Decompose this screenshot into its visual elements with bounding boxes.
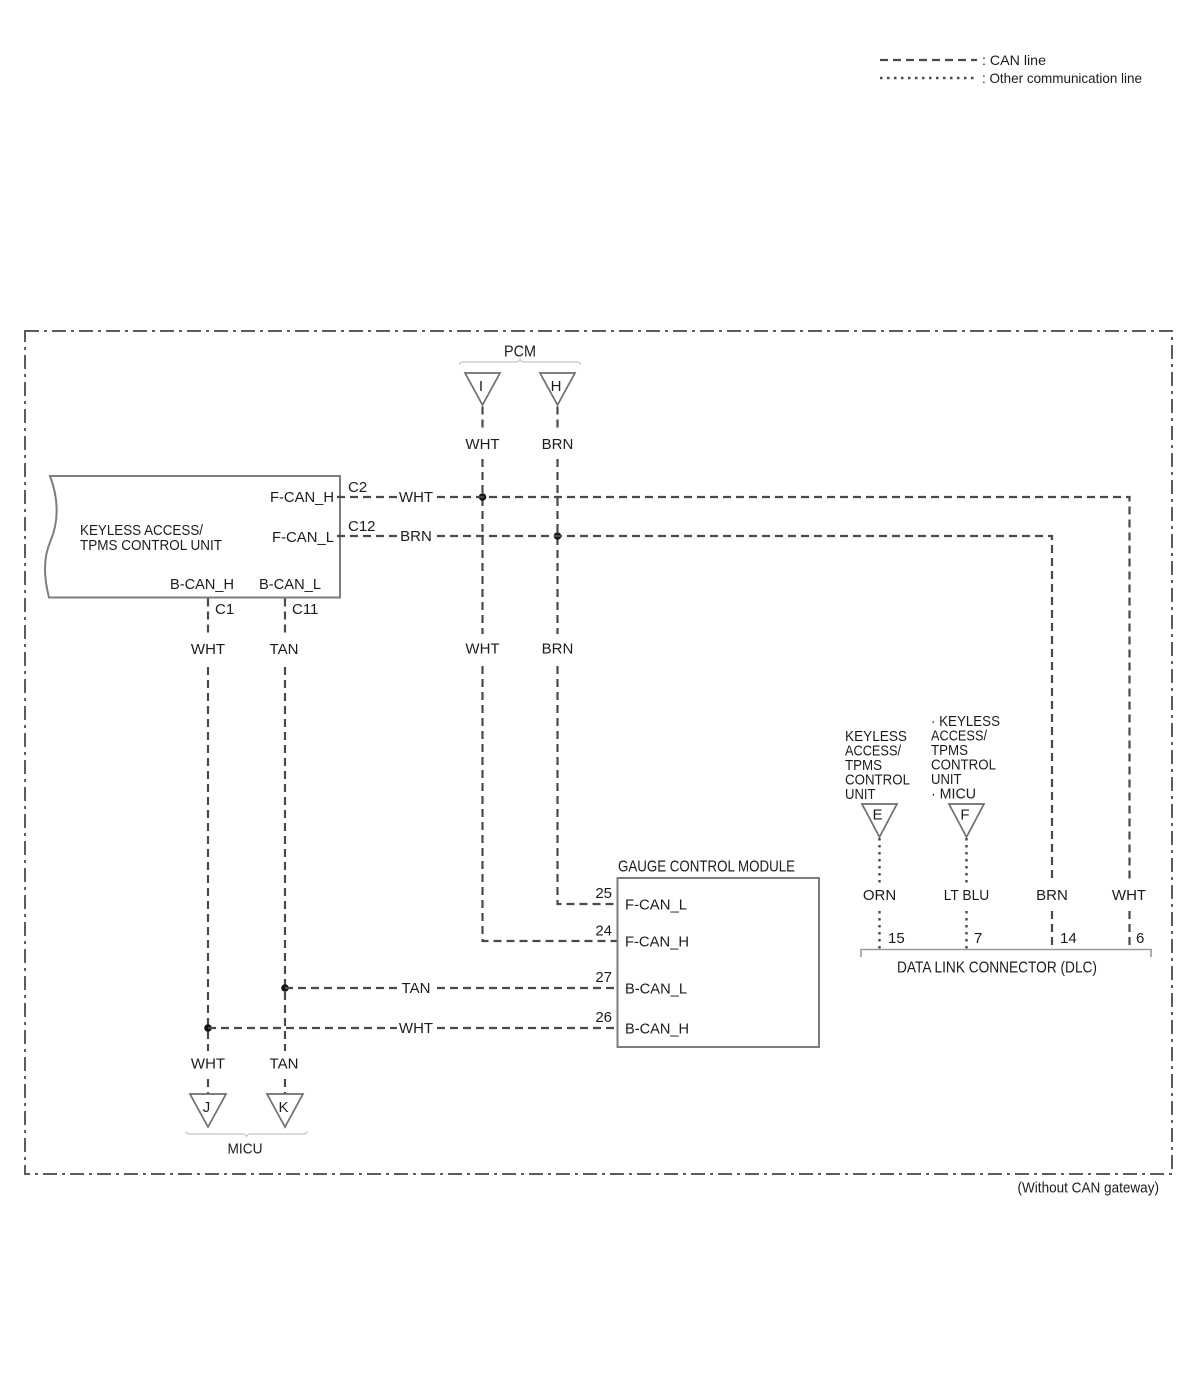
label: keyless access/TPMS control unit (E block): [845, 728, 910, 803]
svg-text:C12: C12: [348, 518, 376, 535]
svg-text:WHT: WHT: [465, 436, 499, 453]
wire: F-CAN_H WHT bus from C2: [337, 496, 397, 498]
svg-text:F-CAN_L: F-CAN_L: [272, 529, 334, 546]
svg-text:BRN: BRN: [542, 641, 574, 658]
wire: F-CAN_H vertical I segment: [481, 459, 483, 634]
wire: F-CAN_H from connector I down: [481, 407, 483, 432]
legend: other communication line sample: [880, 70, 1142, 86]
svg-text:· MICU: · MICU: [931, 786, 976, 803]
wire: F-CAN_H to gauge control module pin 24: [483, 666, 618, 941]
svg-text:26: 26: [595, 1009, 612, 1026]
svg-text:BRN: BRN: [400, 528, 432, 545]
wire: B-CAN_L from C11 down: [284, 599, 286, 638]
svg-text:UNIT: UNIT: [845, 786, 876, 803]
svg-text:DATA LINK CONNECTOR (DLC): DATA LINK CONNECTOR (DLC): [897, 960, 1097, 977]
svg-text:15: 15: [888, 930, 905, 947]
svg-text:K: K: [278, 1099, 288, 1116]
junction: H wire with F-CAN_L bus: [554, 532, 562, 540]
wire: K-line from connector E: [878, 838, 880, 884]
svg-text:C1: C1: [215, 601, 234, 618]
svg-text:BRN: BRN: [1036, 887, 1068, 904]
connector I (PCM): [465, 373, 500, 405]
wire: B-CAN_L stub into connector K: [284, 1079, 286, 1094]
junction: I wire with F-CAN_H bus: [479, 493, 487, 501]
svg-text:I: I: [479, 378, 483, 395]
svg-text:J: J: [203, 1099, 211, 1116]
connector J (MICU): [190, 1094, 226, 1127]
svg-text:14: 14: [1060, 930, 1077, 947]
svg-text:TAN: TAN: [270, 641, 299, 658]
legend: CAN line sample: [880, 52, 1046, 68]
label: keyless access/TPMS control unit - MICU (F block): [931, 713, 1000, 803]
svg-text:ORN: ORN: [863, 887, 896, 904]
wire: F-CAN_L to gauge control module pin 25: [558, 666, 618, 904]
svg-text:BRN: BRN: [542, 436, 574, 453]
wire: BRN drop to DLC pin 14: [1051, 911, 1053, 949]
junction: B-CAN_L tap to gauge control module: [281, 984, 289, 992]
wire: F-CAN_L BRN bus from C12: [337, 535, 399, 537]
gauge control module box: [618, 859, 820, 1048]
svg-text:E: E: [872, 807, 882, 824]
wire: B-CAN_H stub into connector J: [207, 1079, 209, 1094]
svg-text:24: 24: [595, 923, 612, 940]
connector H (PCM): [540, 373, 575, 405]
svg-text:WHT: WHT: [1112, 887, 1146, 904]
svg-text:TPMS CONTROL UNIT: TPMS CONTROL UNIT: [80, 537, 222, 554]
connector F: [949, 804, 984, 837]
wire: F-CAN_H WHT bus to DLC pin 6: [437, 497, 1130, 883]
svg-text:B-CAN_H: B-CAN_H: [625, 1021, 689, 1038]
svg-text:F-CAN_L: F-CAN_L: [625, 897, 687, 914]
svg-text:27: 27: [595, 969, 612, 986]
data link connector (DLC) bracket: [861, 950, 1151, 977]
keyless access / TPMS control unit box: [45, 476, 340, 598]
wire: B-CAN_H vertical to MICU J: [207, 667, 209, 1051]
wire: LT BLU drop to DLC pin 7: [965, 911, 967, 949]
svg-text:GAUGE CONTROL MODULE: GAUGE CONTROL MODULE: [618, 859, 795, 876]
junction: B-CAN_H tap to gauge control module: [204, 1024, 212, 1032]
svg-text:TAN: TAN: [402, 980, 431, 997]
svg-text:WHT: WHT: [191, 641, 225, 658]
svg-text:: CAN line: : CAN line: [982, 52, 1046, 68]
wire: F-CAN_L BRN bus to DLC pin 14: [437, 536, 1052, 883]
svg-text:LT BLU: LT BLU: [944, 887, 990, 904]
wire: B-CAN_H to gauge control module pin 26: [208, 1027, 397, 1029]
svg-text:C2: C2: [348, 479, 367, 496]
svg-text:WHT: WHT: [399, 489, 433, 506]
wire: F-CAN_L from connector H down: [556, 407, 558, 432]
wire: B-CAN_L to gauge control module pin 27: [285, 987, 397, 989]
svg-text:B-CAN_H: B-CAN_H: [170, 576, 234, 593]
svg-text:WHT: WHT: [191, 1056, 225, 1073]
svg-text:TAN: TAN: [270, 1056, 299, 1073]
wire: F-CAN_L vertical H segment: [556, 459, 558, 634]
svg-text:B-CAN_L: B-CAN_L: [259, 576, 321, 593]
svg-text:C11: C11: [292, 601, 318, 618]
svg-text:F: F: [960, 807, 969, 824]
svg-text:6: 6: [1136, 930, 1144, 947]
wire: B-CAN_L vertical to MICU K: [284, 667, 286, 1051]
MICU label with brace: [186, 1132, 307, 1158]
svg-text:7: 7: [974, 930, 982, 947]
PCM label with brace: [460, 344, 581, 365]
wire: B-CAN_H from C1 down: [207, 599, 209, 638]
svg-text:: Other communication line: : Other communication line: [982, 70, 1142, 86]
wire: B-CAN_L pin 27 segment: [437, 987, 617, 989]
svg-text:H: H: [551, 378, 562, 395]
wire: communication line from connector F: [965, 838, 967, 884]
svg-text:F-CAN_H: F-CAN_H: [625, 934, 689, 951]
svg-text:WHT: WHT: [399, 1020, 433, 1037]
wire: ORN drop to DLC pin 15: [878, 911, 880, 949]
svg-text:B-CAN_L: B-CAN_L: [625, 981, 687, 998]
svg-text:25: 25: [595, 885, 612, 902]
svg-text:F-CAN_H: F-CAN_H: [270, 489, 334, 506]
svg-text:MICU: MICU: [228, 1141, 263, 1158]
connector K (MICU): [267, 1094, 303, 1127]
svg-text:(Without CAN gateway): (Without CAN gateway): [1018, 1180, 1160, 1197]
wire: WHT drop to DLC pin 6: [1128, 911, 1130, 949]
wire: B-CAN_H pin 26 segment: [437, 1027, 617, 1029]
connector E: [862, 804, 897, 837]
svg-text:WHT: WHT: [465, 641, 499, 658]
